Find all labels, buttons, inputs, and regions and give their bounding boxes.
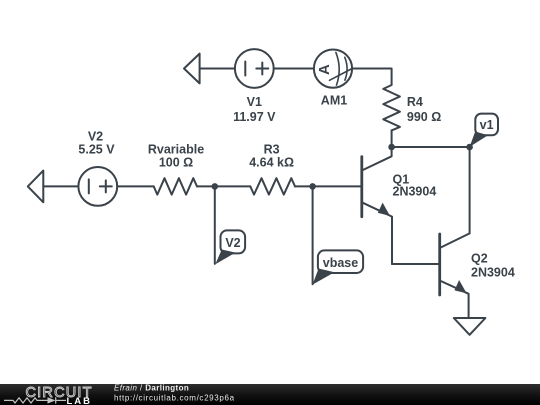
node vbase junction xyxy=(309,183,316,190)
svg-text:v1: v1 xyxy=(480,118,494,132)
ground (left branch, V2 negative terminal) xyxy=(28,171,44,203)
svg-text:vbase: vbase xyxy=(323,256,358,270)
footer bar xyxy=(0,384,540,405)
wire v1 node down to Q2 collector xyxy=(469,147,471,233)
svg-text:V2: V2 xyxy=(225,236,240,250)
svg-text:100 Ω: 100 Ω xyxy=(159,155,193,169)
node v1 junction xyxy=(466,144,473,151)
svg-text:Q2: Q2 xyxy=(471,252,488,266)
svg-text:Efrain / Darlington: Efrain / Darlington xyxy=(114,383,189,392)
node flag V2 xyxy=(215,230,245,264)
svg-text:5.25 V: 5.25 V xyxy=(78,142,115,156)
resistor Rvariable xyxy=(154,178,197,194)
voltage source V1 xyxy=(235,49,274,88)
node flag v1 xyxy=(470,114,498,147)
wire Rvariable to node V2 junction xyxy=(197,185,250,187)
node V2 junction xyxy=(212,183,219,190)
logo doodle: wire-resistor-diode xyxy=(4,397,66,403)
wire R3 to Q1 base xyxy=(295,185,362,187)
wire Q1 emitter to Q2 base xyxy=(392,263,440,265)
wire ground to V1 xyxy=(200,68,235,70)
node flag vbase xyxy=(313,250,364,284)
svg-text:R4: R4 xyxy=(407,95,423,109)
resistor R3 xyxy=(250,178,295,194)
svg-text:990 Ω: 990 Ω xyxy=(407,110,441,124)
wire collector node to v1 node xyxy=(392,146,470,148)
voltage source V2 xyxy=(78,167,117,206)
wire V2 to Rvariable xyxy=(117,185,154,187)
wire junction down to V2 flag xyxy=(214,186,216,264)
svg-text:2N3904: 2N3904 xyxy=(393,185,437,199)
svg-text:2N3904: 2N3904 xyxy=(471,265,515,279)
ammeter AM1 xyxy=(314,50,352,88)
ground (Q2 emitter) xyxy=(454,318,486,335)
svg-text:V2: V2 xyxy=(88,129,103,143)
svg-text:11.97 V: 11.97 V xyxy=(233,110,276,124)
svg-text:V1: V1 xyxy=(247,95,262,109)
wire R4 bottom to collector node xyxy=(391,130,393,147)
wire ground to V2 xyxy=(43,185,78,187)
wire junction down to vbase flag xyxy=(312,186,314,284)
svg-text:4.64 kΩ: 4.64 kΩ xyxy=(249,155,294,169)
ground (top branch, V1 negative terminal) xyxy=(184,54,200,84)
transistor Q2 xyxy=(440,233,470,318)
svg-text:AM1: AM1 xyxy=(321,93,347,107)
svg-text:A: A xyxy=(316,64,333,75)
resistor R4 xyxy=(383,85,400,131)
transistor Q1 xyxy=(362,147,392,264)
node at R4/Q1 collector xyxy=(388,144,395,151)
svg-text:http://circuitlab.com/c293p6a: http://circuitlab.com/c293p6a xyxy=(114,393,235,402)
svg-text:LAB: LAB xyxy=(67,396,93,405)
wire AM1 to R4 top xyxy=(352,69,392,85)
wire V1 to AM1 xyxy=(274,68,314,70)
